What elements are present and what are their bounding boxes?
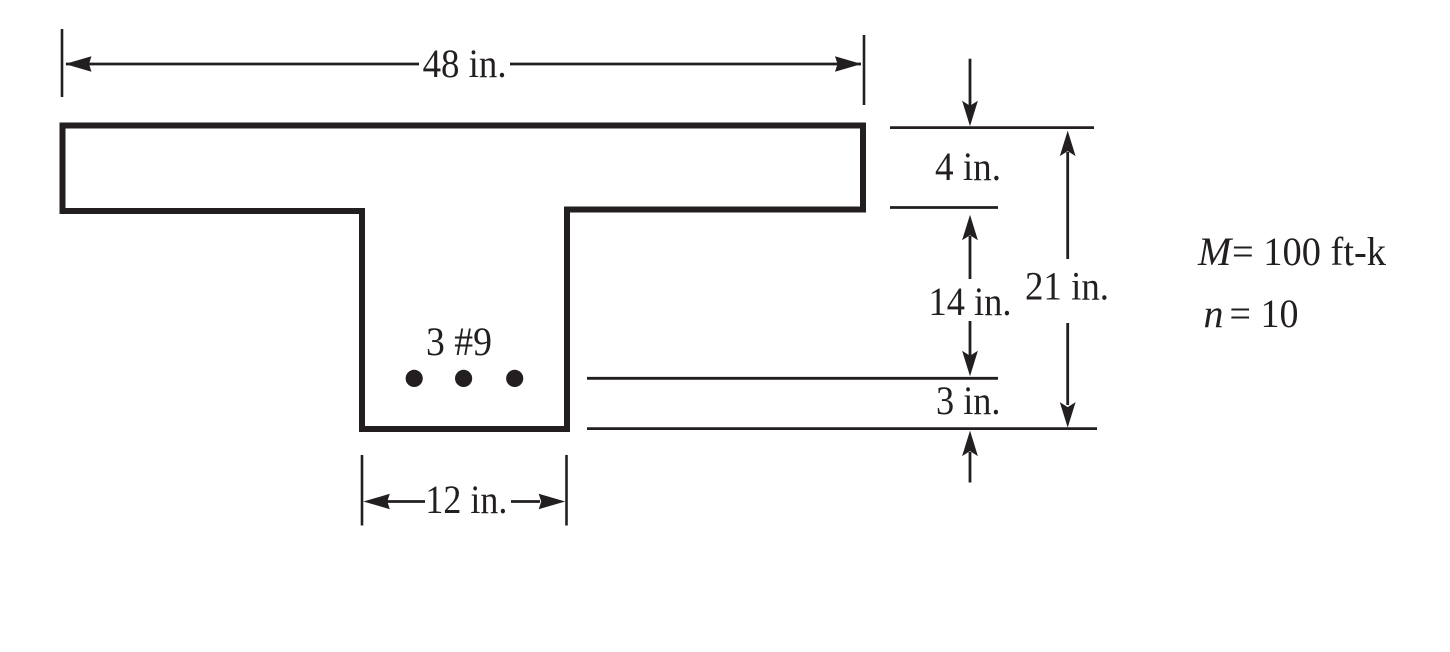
T-beam outline <box>63 126 864 430</box>
steel centroid ext line <box>587 377 998 380</box>
14in upper shaft <box>969 236 972 279</box>
dim 48in line right segment <box>510 63 861 66</box>
dim 12in right tick <box>565 455 568 526</box>
svg-text:= 10: = 10 <box>1230 291 1299 336</box>
4in down arrow shaft <box>969 59 972 106</box>
dim 12in right arrowhead <box>539 494 566 509</box>
svg-text:3 in.: 3 in. <box>936 378 1001 423</box>
dim 48in right tick <box>863 35 866 105</box>
dim 48in left arrowhead <box>65 56 92 71</box>
rebar dot 1 <box>406 370 423 387</box>
dim 48in left tick <box>61 29 64 97</box>
ext line flange bottom right <box>890 206 998 209</box>
14in down arrowhead <box>962 351 978 377</box>
bottom ext line <box>587 427 1097 430</box>
21in down arrowhead <box>1060 402 1076 428</box>
3in up arrowhead below bottom line <box>962 431 978 457</box>
3in lower shaft <box>969 452 972 483</box>
14in lower shaft <box>969 321 972 356</box>
dim 12in left arrowhead <box>363 494 390 509</box>
21in up arrowhead <box>1060 131 1076 157</box>
svg-text:12 in.: 12 in. <box>425 477 507 522</box>
rebar dot 2 <box>455 370 472 387</box>
svg-text:14 in.: 14 in. <box>929 279 1012 324</box>
svg-text:M: M <box>1197 229 1234 274</box>
dim 12in left tick <box>361 455 364 526</box>
4in down arrowhead <box>962 101 978 127</box>
dim 48in line left segment <box>66 63 419 66</box>
21in upper shaft <box>1066 152 1069 259</box>
dim 48in right arrowhead <box>835 56 862 71</box>
dim 12in line right segment <box>511 500 540 503</box>
svg-text:21 in.: 21 in. <box>1025 264 1109 309</box>
dim 12in line left segment <box>386 500 425 503</box>
svg-text:48 in.: 48 in. <box>423 41 507 86</box>
ext line flange top right <box>890 126 1094 129</box>
svg-text:= 100 ft-k: = 100 ft-k <box>1232 229 1386 274</box>
14in up arrowhead <box>962 215 978 241</box>
svg-text:n: n <box>1204 291 1224 336</box>
rebar dot 3 <box>506 370 523 387</box>
svg-text:3 #9: 3 #9 <box>426 319 492 364</box>
svg-text:4 in.: 4 in. <box>935 144 1001 189</box>
21in lower shaft <box>1066 323 1069 405</box>
